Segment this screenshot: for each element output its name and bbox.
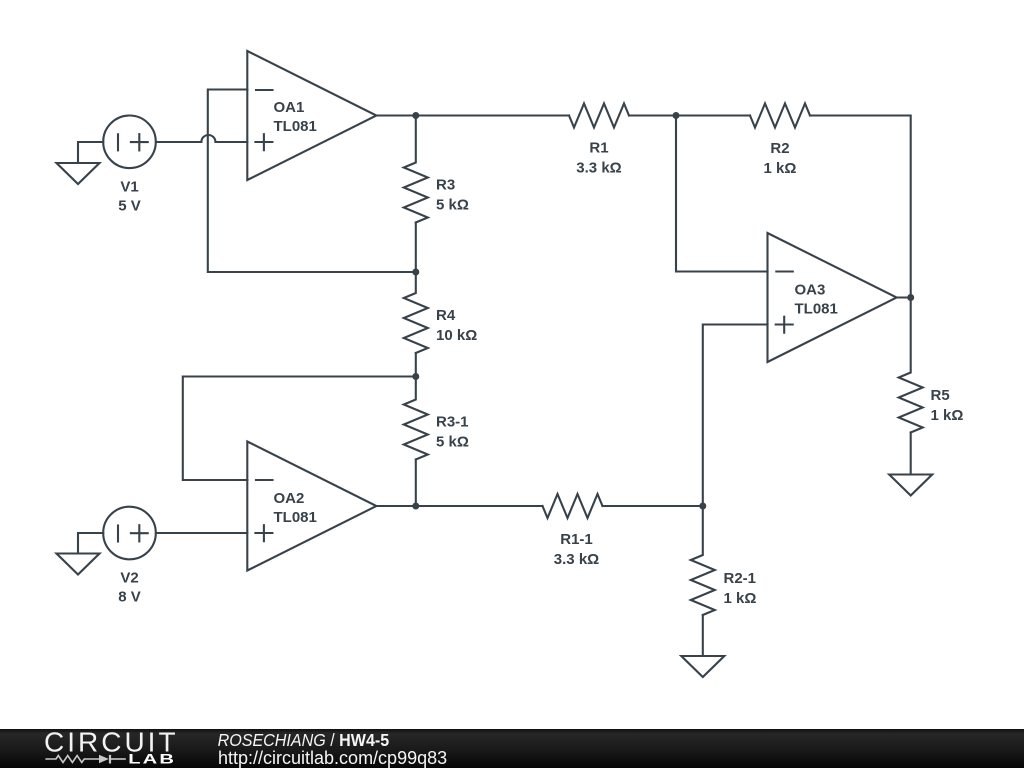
wire R4 to junction B [415,353,417,377]
footer bar [0,729,1024,768]
svg-text:R3-1: R3-1 [436,414,469,431]
wire node A down to OA3 inverting input [676,116,768,272]
ground (V2) [57,533,104,575]
svg-text:TL081: TL081 [274,509,317,526]
svg-text:1 kΩ: 1 kΩ [724,590,757,607]
node A: R1/R2 junction [673,112,680,119]
svg-text:5 kΩ: 5 kΩ [436,197,469,214]
CircuitLab logo resistor-diode glyph [45,755,125,764]
svg-text:1 kΩ: 1 kΩ [764,160,797,177]
svg-text:3.3 kΩ: 3.3 kΩ [554,551,599,568]
wire R3-1 to OA2 output node [415,460,417,507]
svg-text:1 kΩ: 1 kΩ [931,407,964,424]
svg-text:R5: R5 [931,387,950,404]
node C: R1-1/R2-1 junction [699,503,706,510]
resistor R3 [404,116,428,223]
svg-text:8 V: 8 V [118,589,141,606]
svg-text:R1-1: R1-1 [560,531,593,548]
wire V1 to OA1 + input (with hop over feedback wire) [156,135,247,142]
svg-text:ROSECHIANG / HW4-5: ROSECHIANG / HW4-5 [218,730,390,750]
resistor R5 [899,298,923,433]
wire R3 to junction [415,223,417,273]
svg-text:5 kΩ: 5 kΩ [436,434,469,451]
wire OA2 output node to R1-1 [416,505,543,507]
ground (R2-1) [681,656,724,677]
svg-text:OA2: OA2 [274,490,305,507]
resistor R1 [569,104,629,128]
resistor R1-1 [543,494,603,518]
node B: R4/R3-1 junction [412,373,419,380]
svg-text:http://circuitlab.com/cp99q83: http://circuitlab.com/cp99q83 [218,748,447,768]
wire R1 to node A [629,114,676,116]
node: OA2 output junction [412,503,419,510]
wire OA2 output to node [376,505,415,507]
resistor R2-1 [691,506,715,615]
svg-text:OA3: OA3 [795,282,826,299]
op-amp OA2 [247,442,376,571]
svg-text:R4: R4 [436,307,456,324]
wire R5 to ground [910,433,912,475]
svg-text:OA1: OA1 [274,99,305,116]
ground (R5) [889,475,932,496]
wire OA1 output to node [376,114,415,116]
node: R3/R4 junction [412,269,419,276]
wire V2 to OA2 + input [156,532,247,534]
svg-text:R3: R3 [436,177,455,194]
wire R2 to OA3 output node (right side down) [810,116,911,298]
wire OA3 output to node [897,296,911,298]
svg-text:TL081: TL081 [274,118,317,135]
svg-text:LAB: LAB [128,751,176,767]
wire R2-1 to ground [702,615,704,656]
svg-text:TL081: TL081 [795,301,838,318]
svg-text:R1: R1 [589,140,608,157]
resistor R4 [404,272,428,353]
svg-text:5 V: 5 V [118,198,141,215]
voltage source V2 [103,507,156,560]
wire node A to R2 [676,114,750,116]
svg-text:V2: V2 [120,570,138,587]
wire R1-1 to node C [603,505,703,507]
wire OA2 feedback: junction B to inverting input [183,377,416,481]
resistor R3-1 [404,377,428,460]
svg-text:10 kΩ: 10 kΩ [436,327,477,344]
wire node C up to OA3 + input [703,325,768,507]
svg-text:3.3 kΩ: 3.3 kΩ [576,160,621,177]
op-amp OA3 [768,233,897,362]
node: OA1 output junction [412,112,419,119]
wire OA1 output node to R1 [416,114,569,116]
wire OA1 feedback: inverting input to R3/R4 junction [208,90,416,273]
ground (V1) [57,142,104,184]
svg-text:R2-1: R2-1 [724,570,757,587]
node: OA3 output junction [907,294,914,301]
resistor R2 [750,104,810,128]
voltage source V1 [103,116,156,169]
svg-text:V1: V1 [120,179,138,196]
op-amp OA1 [247,51,376,180]
svg-text:R2: R2 [770,140,789,157]
